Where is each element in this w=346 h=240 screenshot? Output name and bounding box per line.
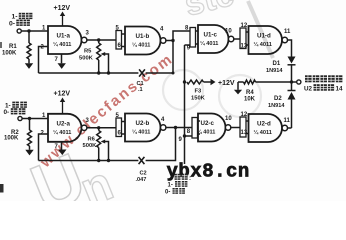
resistor R2 [4,130,32,146]
ground below R2 [25,146,33,155]
wire U2-c to U2-d [231,127,240,129]
svg-text:10: 10 [225,29,232,35]
input tie box U2-d [240,117,249,137]
pin 5 label U2-b [116,113,120,119]
svg-text:U1-d: U1-d [257,33,271,40]
svg-text:D2: D2 [274,96,282,102]
wire U2-b pin 4 to U2-c pin 8 [166,127,192,129]
svg-text:1N914: 1N914 [266,68,283,74]
svg-text:150K: 150K [191,96,206,102]
svg-text:500K: 500K [79,56,94,62]
NAND gate U1-b [125,27,161,55]
watermark gray letter n [73,157,120,217]
NAND gate U2-d [249,114,283,142]
wire U2-a pin 2 feedback stub [39,134,49,161]
svg-text:¼ 4011: ¼ 4011 [254,41,272,48]
label clock output line 2 (U2 de yinjiao 14) [304,84,343,92]
input tie box U2-b [116,118,125,137]
NAND gate U1-d [249,26,283,54]
svg-text:www.elecfans.com: www.elecfans.com [36,50,176,171]
pin 10 label U1-c [225,29,232,35]
wire to U1-c pin 8 [173,31,190,41]
NAND gate U1-a [48,26,82,54]
node label 1-jietong (bottom input legend line 1) [5,102,27,110]
output terminal [297,80,301,84]
svg-text:U2-c: U2-c [201,120,215,127]
pin 7 label U1-a [55,57,59,63]
node label 0-duankai (bottom input legend line 2) [4,108,26,116]
output bubble U1-b [161,38,166,43]
svg-text:C2: C2 [140,171,147,177]
pin 9 label U1-c [187,46,191,52]
pin 11 label U2-d [284,118,291,124]
wire U1-a pin 3 to U1-b [87,39,116,41]
resistor R4 [244,80,292,103]
wire J1 to U1-a pin 1 [21,30,48,32]
svg-text:¼ 4011: ¼ 4011 [200,40,218,47]
svg-text:U2-d: U2-d [257,121,271,128]
junction R6 bottom [97,159,100,162]
junction U1-b output [171,39,174,42]
watermark gray circle left [163,70,203,110]
ground below R1 [25,59,33,69]
svg-text:¼ 4011: ¼ 4011 [254,129,272,136]
ground U2-a pin 7 [58,142,66,155]
svg-text:500K: 500K [83,143,98,149]
pin 6 label U2-b [118,131,122,137]
pin 5 label U1-b [116,26,120,32]
watermark gray slash [248,1,273,58]
svg-text:3: 3 [86,31,90,37]
potentiometer R6 [83,128,101,161]
coupling line from U1-c pin 9 to U2-c pin 9 [184,45,186,164]
wire U2-d pin 11 to D2 [287,127,291,129]
pin 8 label U1-c [185,26,189,32]
svg-text:.1: .1 [138,87,143,93]
pin 7 label U2-a [55,144,59,150]
svg-text:D1: D1 [273,61,281,67]
svg-text:U2-b: U2-b [136,120,150,127]
pin 8 label U2-c [187,129,191,135]
wire U1-d pin 11 to D1 [287,40,291,57]
node label 0-duankai (top input legend line 2) [9,20,30,28]
junction at R6 top [97,126,100,129]
NAND gate U2-c [197,114,226,142]
site label ybx8.cn [167,161,250,183]
pin 1 label U2-a [42,113,46,119]
svg-text:+12V: +12V [218,80,235,87]
ground U1-a pin 7 [58,54,66,69]
R5 wiper arm [101,52,109,73]
svg-text:ste: ste [181,0,238,24]
watermark red arc text www.elecfans.com [36,50,176,171]
note buchong (supplement) [175,174,192,182]
wire U1-c to U1-d [234,38,240,40]
svg-text:10: 10 [225,116,232,122]
svg-text:7: 7 [55,57,59,63]
pin 11 label U1-d [284,29,291,35]
input tie box U1-b [116,31,125,50]
junction coupling to U2-c pin 9 [183,134,186,137]
svg-text:.047: .047 [136,177,147,183]
note 1-jietong [168,181,188,189]
svg-text:¼ 4011: ¼ 4011 [53,129,71,136]
svg-text:0-: 0- [4,109,10,116]
svg-text:10K: 10K [244,97,256,103]
svg-text:1-: 1- [168,183,173,189]
output bubble U1-d [282,37,287,42]
input terminal J1 [17,29,21,33]
svg-text:F3: F3 [195,89,203,95]
scan artifact left edge [0,42,4,193]
pin 2 label U1-a [41,45,45,51]
node label 1-jietong (top input legend line 1) [12,13,33,21]
node A junction [27,29,30,32]
wire top feedback left segment [39,72,139,74]
svg-text:100K: 100K [2,51,17,57]
junction R3 node [183,80,186,83]
pin 1 label U1-a [42,26,46,32]
wire U2-c pin 9 stub [185,135,193,137]
svg-text:R1: R1 [9,44,17,50]
pin 3 label U2-a [86,118,90,124]
+12V supply U1-a pin 14 [54,5,71,26]
pin 4 label U1-b [160,27,164,33]
svg-text:4: 4 [161,117,165,123]
watermark gray letter U [21,139,95,228]
svg-text:11: 11 [284,29,291,35]
wire bottom feedback right segment [146,128,176,161]
svg-text:¼ 4011: ¼ 4011 [197,129,215,136]
output bubble U2-c [225,125,230,130]
svg-text:U1-c: U1-c [204,32,218,39]
svg-text:+12V: +12V [54,5,71,12]
output bubble U2-b [161,125,166,130]
pin 9 label U2-c [179,137,183,143]
svg-text:U2-a: U2-a [57,121,71,128]
pin 4 label U2-b [161,117,165,123]
wire top feedback right segment [146,41,175,75]
R6 wiper arm [101,140,109,161]
NAND gate U1-c [198,25,229,53]
wire to output terminal [292,81,297,83]
node B junction [28,117,31,120]
+12V arrow right of R3 [211,79,235,87]
capacitor C1 [137,69,145,93]
pin 13 label U2-d [241,130,248,136]
svg-text::: : [189,176,191,182]
svg-text:¼ 4011: ¼ 4011 [132,129,150,136]
resistor R3 [187,80,211,102]
svg-text:9: 9 [179,137,183,143]
potentiometer R5 [79,40,101,73]
junction at R5 top [97,38,100,41]
svg-text:1N914: 1N914 [268,103,285,109]
diode D2 [268,91,296,110]
diode D1 [266,57,296,75]
wire U1-b pin 4 to junction [166,40,173,42]
junction R6 wiper bottom [107,159,110,162]
pin 13 label U1-d [241,44,248,50]
pin 12 label U1-d [241,23,248,29]
output bubble U1-a [82,37,87,42]
label clock output line 1 (shizhong shuchu zhi) [305,75,342,82]
pin 12 label U2-d [241,112,248,118]
note 0-duankai [165,188,185,196]
svg-text:U1-b: U1-b [136,33,150,40]
svg-text:11: 11 [284,118,291,124]
svg-text:4: 4 [160,27,164,33]
input tie box U1-c [190,28,198,48]
input terminal J2 [18,116,22,120]
svg-text:+12V: +12V [54,91,71,98]
svg-text:2: 2 [41,45,45,51]
wire U2-a pin 3 to U2-b [87,127,116,129]
watermark gray letters ste [181,0,238,24]
svg-text:0-: 0- [165,190,170,196]
capacitor C2 [136,157,147,183]
svg-text:R6: R6 [88,137,96,143]
output bubble U2-a [82,125,87,130]
junction R5 bottom [97,71,100,74]
svg-text:U1-a: U1-a [57,33,71,40]
clock output node [290,80,293,83]
wire node A to R1 [28,31,30,43]
pin 2 label U2-a [41,131,45,137]
input tie box U2-c [192,118,200,139]
svg-text:R5: R5 [84,49,92,55]
wire D2 to U2-d pin 11 [291,82,293,128]
NAND gate U2-b [125,114,161,142]
wire D1 to clock node [291,65,293,82]
svg-text:14: 14 [336,86,344,93]
watermark gray circle right [219,75,261,117]
wire bottom feedback left segment [39,160,139,162]
wire J2 to U2-a pin 1 [22,118,48,120]
svg-text:100K: 100K [4,136,19,142]
output bubble U2-d [282,125,287,130]
+12V supply arrow at R4 [234,82,244,94]
wire U1-a pin 2 feedback stub [39,47,49,74]
svg-text:¼ 4011: ¼ 4011 [53,41,71,48]
svg-text:8: 8 [187,129,191,135]
+12V supply U2-a pin 14 [54,91,71,114]
junction R5 wiper bottom [107,71,110,74]
svg-text:R4: R4 [246,90,254,96]
output bubble U1-c [228,36,233,41]
junction U2-b output [174,126,177,129]
svg-text:0-: 0- [9,20,15,27]
input tie box U1-d [240,28,249,49]
wire U1-c pin 9 stub [185,44,191,46]
pin 6 label U1-b [118,43,122,49]
wire node B to R2 [29,119,31,131]
pin 3 label U1-a [86,31,90,37]
resistor R1 [2,43,31,59]
pin 10 label U2-c [225,116,232,122]
svg-text:U2: U2 [304,86,313,93]
svg-text:¼ 4011: ¼ 4011 [132,42,150,49]
NAND gate U2-a [48,114,82,142]
